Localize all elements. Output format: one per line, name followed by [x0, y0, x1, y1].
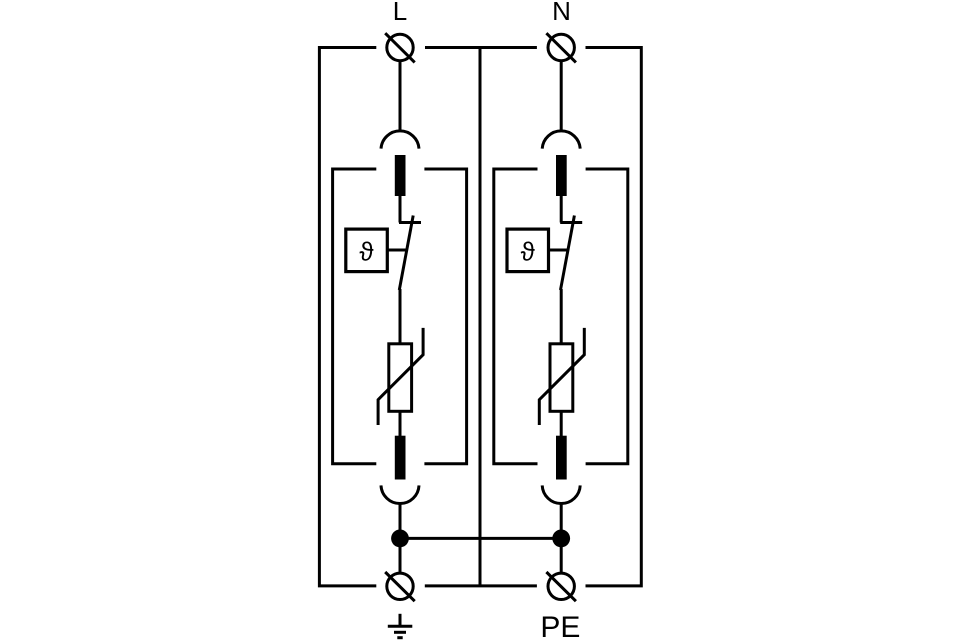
contact bar bottom N: [556, 436, 567, 480]
contact bar bottom L: [395, 436, 406, 480]
wire: contact bar to thermal switch N: [560, 196, 563, 223]
terminal N (disconnectable): [546, 33, 576, 62]
varistor N: [539, 328, 584, 425]
svg-text:ϑ: ϑ: [521, 237, 536, 267]
junction dot L: [391, 530, 409, 548]
wire: switch to varistor N: [560, 289, 563, 344]
outer enclosure frame: [319, 48, 641, 586]
thermal sensor box N: [507, 229, 549, 272]
connector: thermal sensor to switch blade L: [387, 249, 407, 252]
terminal bottom right (PE): [546, 572, 576, 601]
svg-text:L: L: [393, 0, 407, 26]
terminal L (disconnectable): [385, 33, 415, 62]
varistor L: [378, 328, 423, 425]
plug-in contact arc top L: [381, 131, 419, 149]
wire: varistor to bottom contact bar L: [399, 411, 402, 436]
ground symbol: [388, 614, 413, 638]
center divider wire: [479, 48, 482, 586]
thermal disconnect switch N: [560, 216, 582, 291]
contact bar top L: [395, 155, 406, 196]
contact bar top N: [556, 155, 567, 196]
svg-text:ϑ: ϑ: [359, 237, 374, 267]
junction dot N: [552, 530, 570, 548]
wire: switch to varistor L: [399, 289, 402, 344]
plug-in contact arc bottom N: [542, 485, 580, 503]
thermal sensor box L: [346, 229, 388, 272]
terminal bottom left (ground side): [385, 572, 415, 601]
wire: N terminal to top plug contact: [560, 61, 563, 131]
wire: bottom contact to PE bus L: [399, 504, 402, 574]
module enclosure box L: [333, 169, 467, 464]
wire: varistor to bottom contact bar N: [560, 411, 563, 436]
svg-text:PE: PE: [540, 611, 580, 640]
svg-text:N: N: [552, 0, 571, 26]
wire: L terminal to top plug contact: [399, 61, 402, 131]
connector: thermal sensor to switch blade N: [549, 249, 569, 252]
wire: bottom contact to PE bus N: [560, 504, 563, 574]
wire: contact bar to thermal switch L: [399, 196, 402, 223]
module enclosure box N: [494, 169, 628, 464]
plug-in contact arc top N: [542, 131, 580, 149]
PE bus wire between junctions: [400, 537, 561, 540]
thermal disconnect switch L: [399, 216, 421, 291]
plug-in contact arc bottom L: [381, 485, 419, 503]
